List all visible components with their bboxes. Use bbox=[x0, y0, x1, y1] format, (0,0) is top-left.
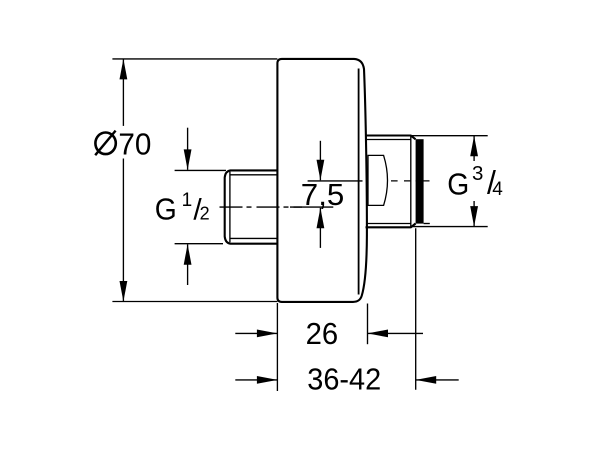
dimension G3/4 line lower segment with arrow bbox=[473, 201, 475, 227]
svg-text:36-42: 36-42 bbox=[307, 361, 381, 396]
dimension 36-42 right extension line bbox=[415, 228, 417, 389]
centerline of G3/4 outlet axis dashed part bbox=[391, 180, 430, 182]
G1/2 spigot outline bbox=[225, 170, 278, 243]
flange inner edge line bbox=[358, 69, 360, 295]
dimension Ø70 line upper segment with arrow bbox=[122, 59, 124, 126]
G1/2 chamfer edge line bbox=[229, 172, 231, 243]
G3/4 thread gasket black ring bbox=[416, 139, 424, 223]
G3/4 thread root line top bbox=[366, 139, 411, 141]
dimension G3/4 top extension line bbox=[412, 135, 488, 137]
G3/4 thread root line bottom bbox=[366, 223, 411, 225]
svg-text:7,5: 7,5 bbox=[301, 177, 345, 212]
svg-text:1: 1 bbox=[182, 190, 193, 211]
svg-text:26: 26 bbox=[306, 316, 339, 351]
dimension Ø70 label diameter symbol bbox=[95, 133, 115, 155]
dimension 26 right extension line bbox=[367, 304, 369, 345]
dimension G3/4 line upper segment with arrow bbox=[473, 136, 475, 161]
dimension G1/2 upper arrow bbox=[187, 128, 189, 170]
dimension G1/2 lower arrow bbox=[187, 244, 189, 285]
flange face extension line (reference for 26 and 36-42) bbox=[276, 303, 278, 391]
svg-text:G: G bbox=[447, 167, 469, 202]
dimension 36-42 left arrow bbox=[235, 379, 277, 381]
dimension 36-42 right arrow bbox=[416, 379, 459, 381]
inner bore detail (spigot end seen through outlet) bbox=[368, 155, 387, 205]
svg-text:3: 3 bbox=[472, 162, 483, 185]
dimension G1/2 bottom extension line bbox=[175, 243, 223, 245]
centerline of G3/4 outlet axis / 7.5 upper reference line bbox=[308, 180, 363, 182]
G3/4 thread end face edge right of ring bbox=[424, 223, 430, 225]
centerline of G1/2 spigot axis bbox=[220, 206, 303, 208]
dimension Ø70 bottom extension line bbox=[112, 301, 277, 303]
dimension Ø70 top extension line bbox=[112, 58, 277, 60]
svg-text:4: 4 bbox=[492, 179, 503, 200]
dimension G1/2 top extension line bbox=[175, 169, 226, 171]
dimension 7.5 upper arrow bbox=[319, 141, 321, 181]
dimension 26 right arrow bbox=[368, 332, 424, 334]
G1/2 thread root line top bbox=[230, 174, 277, 176]
dimension G3/4 bottom extension line bbox=[412, 226, 488, 228]
G3/4 connector outline top bbox=[366, 136, 416, 140]
svg-text:70: 70 bbox=[118, 127, 151, 162]
dimension 7.5 lower arrow bbox=[319, 208, 321, 248]
G1/2 thread root line bottom bbox=[230, 237, 277, 239]
G3/4 connector outline bottom bbox=[366, 224, 416, 228]
dimension Ø70 line lower segment with arrow bbox=[122, 159, 124, 302]
flange (wall escutcheon) outline bbox=[277, 59, 367, 302]
centerline solid part / 7.5 lower reference line bbox=[290, 206, 333, 208]
dimension 26 left arrow bbox=[235, 332, 277, 334]
svg-text:2: 2 bbox=[200, 204, 210, 224]
G3/4 thread start vertical edge bbox=[410, 136, 412, 227]
svg-text:G: G bbox=[155, 191, 177, 226]
